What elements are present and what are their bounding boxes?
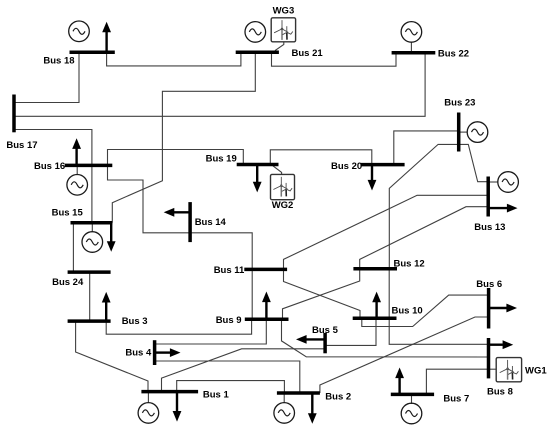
svg-text:Bus 13: Bus 13 (474, 222, 505, 233)
svg-text:Bus 8: Bus 8 (487, 387, 513, 398)
svg-text:WG2: WG2 (272, 200, 294, 211)
svg-text:Bus 5: Bus 5 (312, 325, 339, 336)
svg-text:Bus 10: Bus 10 (392, 306, 423, 317)
svg-text:Bus 12: Bus 12 (394, 258, 425, 269)
svg-text:Bus 22: Bus 22 (438, 48, 469, 59)
svg-text:Bus 11: Bus 11 (214, 265, 245, 276)
svg-text:Bus 17: Bus 17 (6, 140, 37, 151)
svg-text:WG1: WG1 (525, 365, 547, 376)
svg-text:Bus 1: Bus 1 (203, 389, 230, 400)
svg-text:Bus 6: Bus 6 (476, 279, 502, 290)
svg-text:Bus 21: Bus 21 (292, 48, 324, 59)
svg-text:Bus 9: Bus 9 (216, 315, 242, 326)
svg-text:Bus 15: Bus 15 (52, 208, 84, 219)
svg-text:Bus 3: Bus 3 (122, 316, 148, 327)
svg-text:Bus 4: Bus 4 (125, 347, 152, 358)
svg-text:Bus 16: Bus 16 (34, 161, 65, 172)
svg-text:Bus 14: Bus 14 (195, 217, 227, 228)
svg-text:Bus 23: Bus 23 (444, 98, 475, 109)
svg-text:Bus 20: Bus 20 (331, 161, 362, 172)
svg-text:Bus 24: Bus 24 (52, 277, 84, 288)
svg-text:WG3: WG3 (273, 5, 295, 16)
svg-text:Bus 7: Bus 7 (443, 393, 469, 404)
svg-text:Bus 19: Bus 19 (206, 153, 237, 164)
svg-text:Bus 18: Bus 18 (43, 56, 74, 67)
svg-text:Bus 2: Bus 2 (325, 392, 351, 403)
